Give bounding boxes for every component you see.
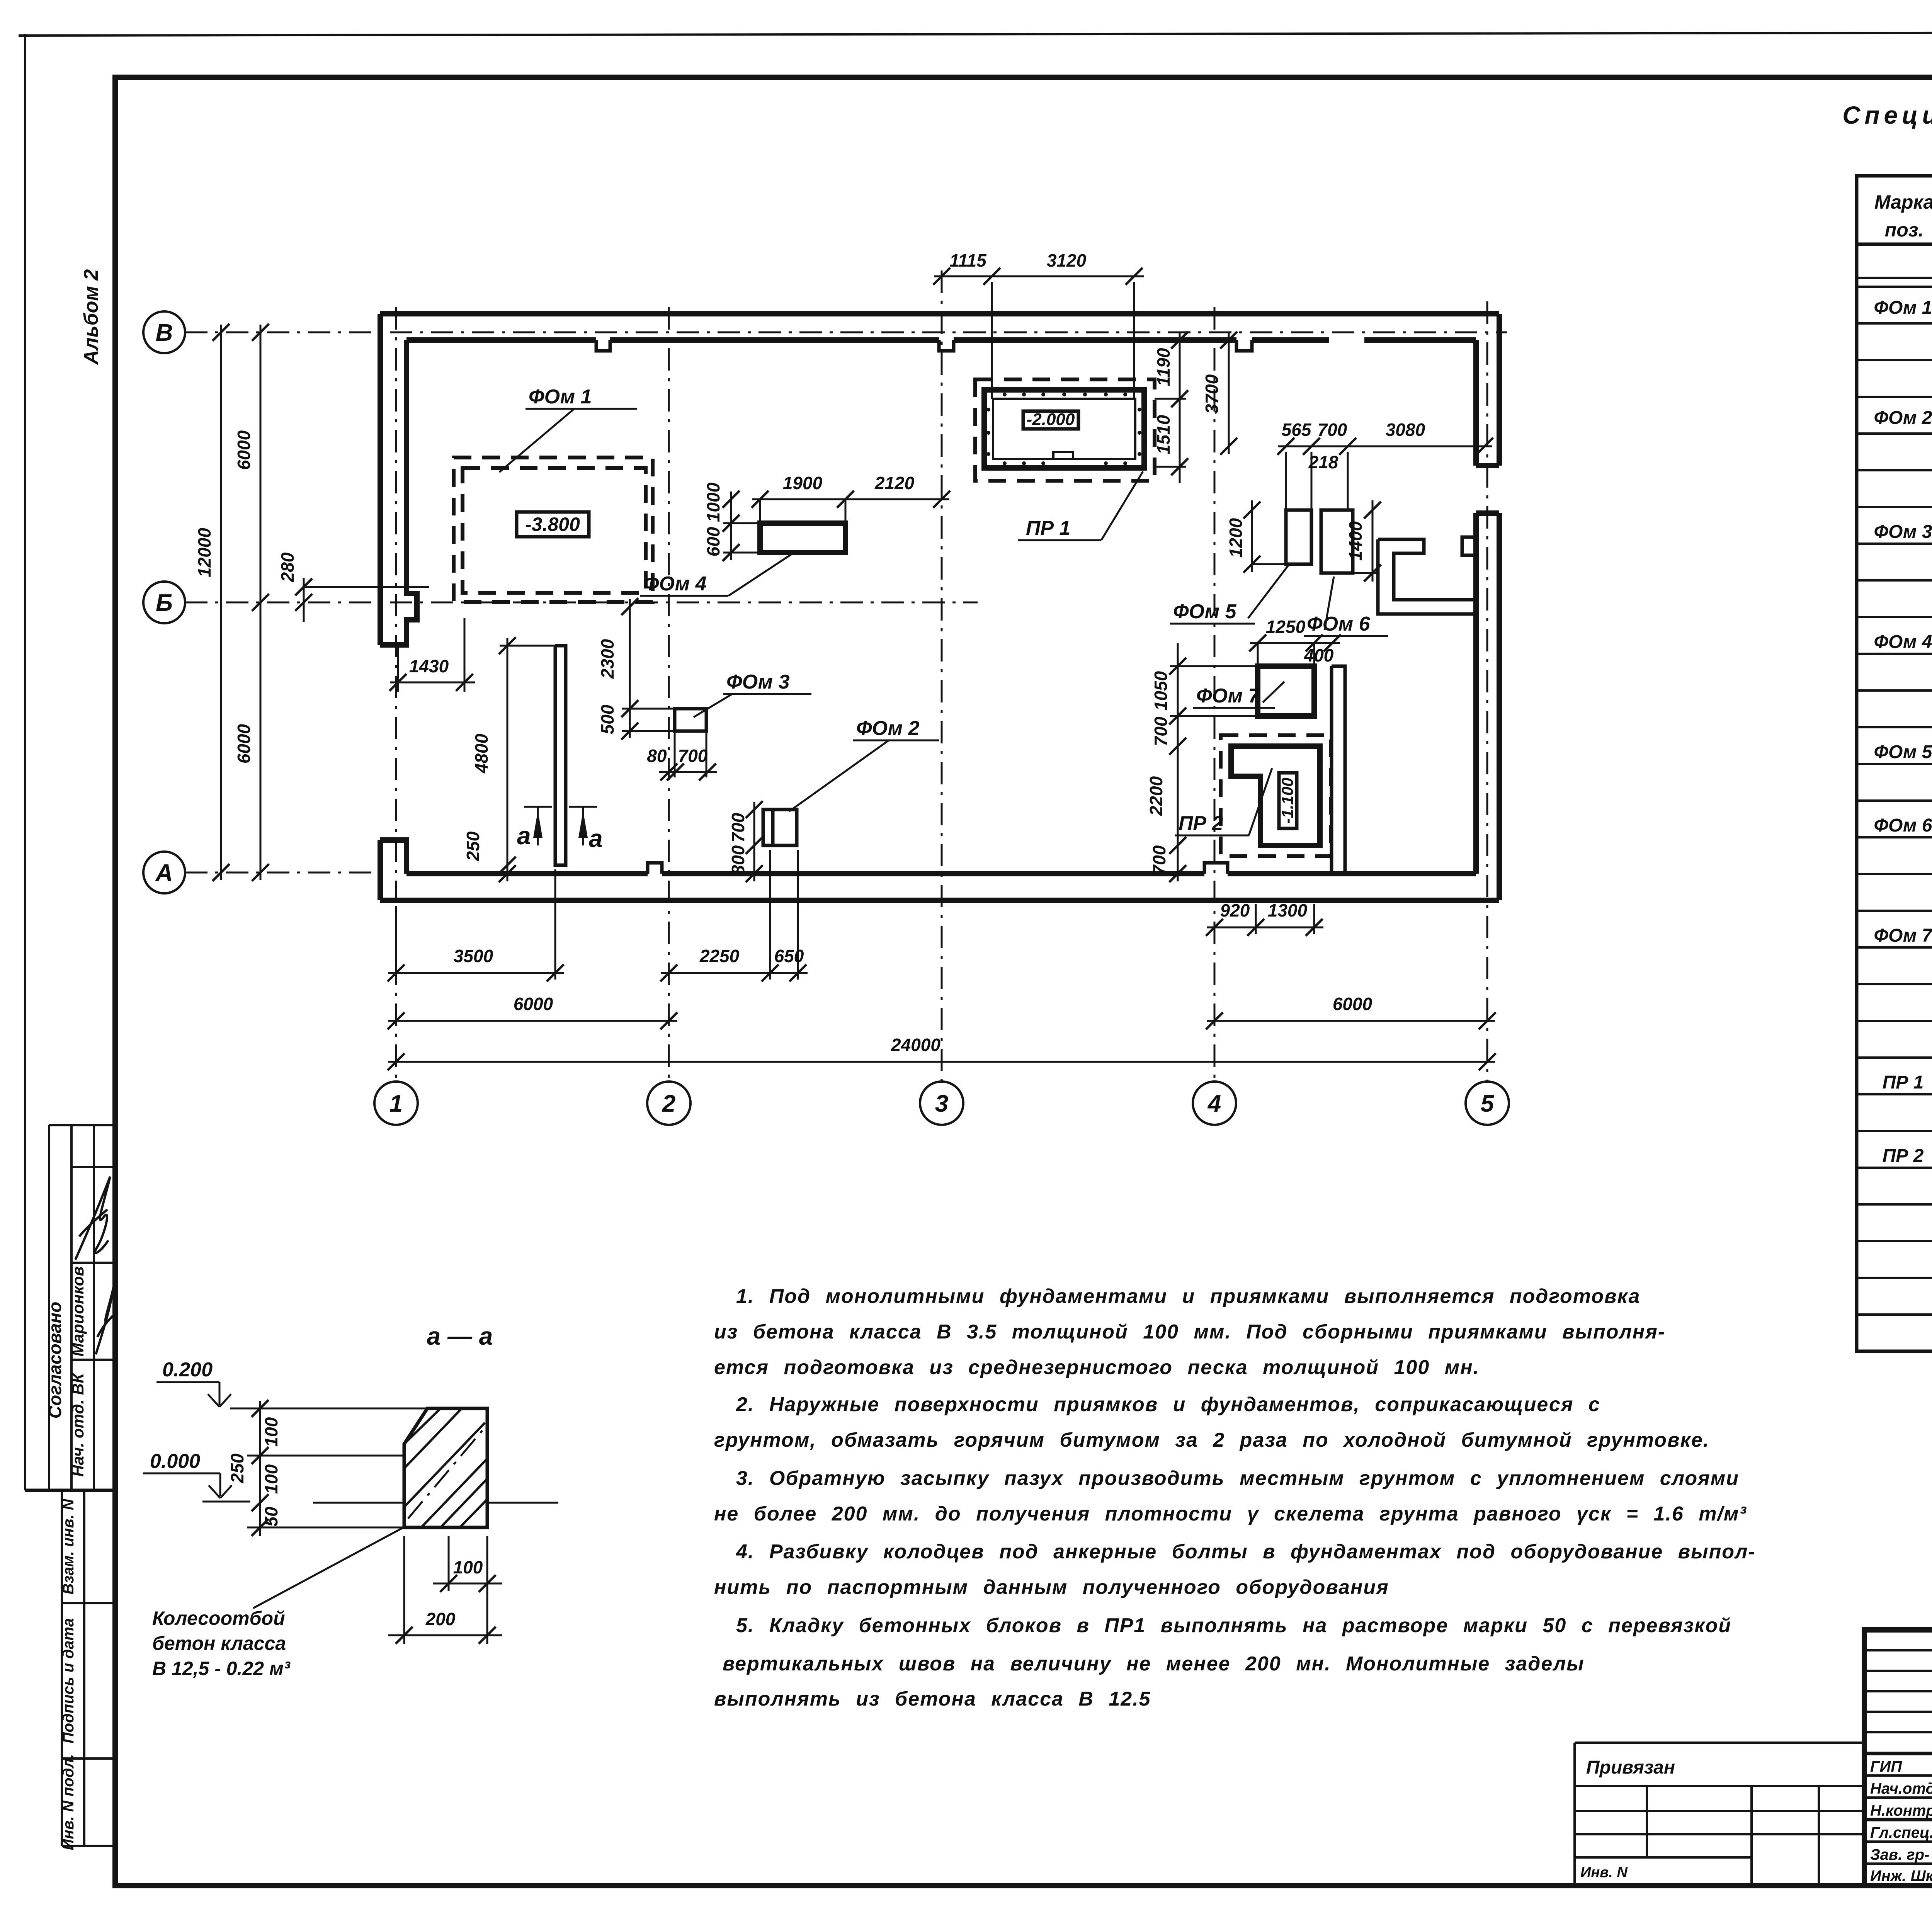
label ПР1 with leader <box>1018 471 1143 540</box>
svg-text:ГИП: ГИП <box>1870 1758 1902 1775</box>
svg-text:4. Разбивку колодцев под ан: 4. Разбивку колодцев под анкерные болты … <box>736 1541 1756 1563</box>
svg-text:3500: 3500 <box>454 946 493 966</box>
svg-text:5: 5 <box>1481 1090 1495 1117</box>
table header bottom line <box>1857 243 1932 246</box>
svg-text:ФОм 2: ФОм 2 <box>1874 408 1932 428</box>
svg-text:2200: 2200 <box>1146 776 1166 816</box>
axis line 2 <box>668 307 670 1082</box>
svg-text:100: 100 <box>453 1557 483 1577</box>
svg-text:250: 250 <box>463 831 483 861</box>
title block horizontals <box>1864 1650 1932 1864</box>
svg-text:ПР 1: ПР 1 <box>1883 1072 1924 1093</box>
svg-text:700: 700 <box>1318 420 1347 440</box>
svg-text:Инв. N: Инв. N <box>1580 1864 1628 1881</box>
dim chain 12000 left <box>194 324 230 881</box>
block bottom dim 200 <box>388 1536 502 1644</box>
svg-text:Инв. N подл.: Инв. N подл. <box>60 1754 77 1850</box>
svg-text:Инж. Шк: Инж. Шк <box>1870 1867 1932 1884</box>
interior partition right of ПР2 <box>1332 666 1345 874</box>
svg-text:2250: 2250 <box>699 946 740 966</box>
foundation ФОм5 <box>1286 510 1311 564</box>
svg-text:2. Наружные поверхности прия: 2. Наружные поверхности приямков и фунда… <box>736 1393 1600 1416</box>
svg-text:выполнять из бетона класса: выполнять из бетона класса В 12.5 <box>714 1688 1151 1710</box>
svg-text:100: 100 <box>261 1464 281 1494</box>
pit ПР1 bottom notch <box>1053 452 1073 459</box>
svg-text:3120: 3120 <box>1047 250 1087 270</box>
dim 700+800 left of ФОм2 <box>728 801 763 882</box>
title block frame <box>1864 1630 1932 1886</box>
block hatching <box>404 1408 487 1527</box>
svg-text:ФОм 4: ФОм 4 <box>643 573 707 595</box>
pit ПР1 inner edge <box>993 399 1135 459</box>
foundation ФОм3 <box>675 709 706 731</box>
axis circle А <box>143 852 185 893</box>
svg-text:Колесоотбой: Колесоотбой <box>152 1607 285 1629</box>
wheel-guard leader note <box>152 1527 405 1679</box>
svg-text:Марионков: Марионков <box>69 1266 87 1357</box>
svg-text:ФОм 3: ФОм 3 <box>726 671 790 693</box>
label ФОм7 with leader <box>1193 682 1284 708</box>
dim chain 1050+700+2200+700 left of ФОм7/ПР2 <box>1146 643 1258 882</box>
svg-text:В: В <box>156 320 173 346</box>
svg-text:Подпись и дата: Подпись и дата <box>60 1618 77 1743</box>
axis circle Б <box>143 582 185 623</box>
svg-text:6000: 6000 <box>1333 994 1372 1014</box>
label ФОм6 with leader <box>1304 577 1388 636</box>
table header texts <box>1874 191 1932 242</box>
svg-text:218: 218 <box>1308 452 1338 472</box>
elevation mark 0.200 <box>156 1359 231 1407</box>
foundation ФОм1 inner dashed outline <box>463 468 646 593</box>
svg-text:3700: 3700 <box>1202 374 1222 414</box>
bottom wall inner line segments <box>406 871 1476 876</box>
top wall inner line segments with pilaster gaps <box>406 337 1476 343</box>
svg-text:24000: 24000 <box>891 1035 940 1055</box>
svg-text:А: А <box>155 860 173 886</box>
dim 1000+600 left of ФОм4 <box>703 482 760 561</box>
svg-text:2: 2 <box>662 1090 675 1117</box>
svg-text:1190: 1190 <box>1153 348 1173 386</box>
svg-text:3080: 3080 <box>1386 420 1425 440</box>
axis circle В <box>143 311 185 353</box>
svg-text:ФОм 4: ФОм 4 <box>1874 632 1932 652</box>
axis line Б <box>185 602 978 604</box>
dim 24000 <box>388 1035 1496 1070</box>
svg-text:700: 700 <box>678 746 708 766</box>
section mark а right <box>569 807 603 852</box>
svg-text:из бетона класса В 3.5 тол: из бетона класса В 3.5 толщиной 100 мм. … <box>714 1321 1665 1343</box>
table body texts <box>1874 298 1932 1240</box>
svg-text:1. Под монолитными фундамент: 1. Под монолитными фундаментами и приямк… <box>736 1285 1640 1308</box>
svg-text:4: 4 <box>1207 1090 1221 1117</box>
svg-text:Спецификация к схеме распол: Спецификация к схеме расположения фундам… <box>1842 101 1932 129</box>
dim 1115+3120 above ПР1 <box>933 250 1144 399</box>
top wall outer line <box>380 311 1499 316</box>
svg-text:поз.: поз. <box>1885 219 1924 241</box>
axis circle 3 <box>920 1082 963 1125</box>
page outer border left <box>24 34 26 1490</box>
svg-text:1900: 1900 <box>783 473 823 493</box>
bottom wall outer line <box>380 898 1499 903</box>
svg-text:a: a <box>517 822 531 850</box>
svg-text:Привязан: Привязан <box>1586 1757 1675 1778</box>
svg-text:700: 700 <box>728 813 748 842</box>
left wall <box>380 314 417 645</box>
pit ПР1 anchor dots <box>986 393 1141 465</box>
dim 280 near Б <box>277 552 429 622</box>
dim 1430 <box>389 618 475 692</box>
dim 1400 right of ФОм6 <box>1345 500 1381 582</box>
svg-text:a: a <box>589 825 603 852</box>
dim 2250+650 <box>660 850 808 981</box>
svg-text:Нач.отд.: Нач.отд. <box>1870 1780 1932 1797</box>
svg-text:ФОм 7: ФОм 7 <box>1196 685 1260 707</box>
svg-text:Альбом 2: Альбом 2 <box>80 269 102 366</box>
svg-text:3. Обратную засыпку пазух п: 3. Обратную засыпку пазух производить ме… <box>736 1467 1739 1490</box>
svg-text:1250: 1250 <box>1266 617 1306 637</box>
svg-text:Зав. гр-: Зав. гр- <box>1870 1846 1929 1863</box>
svg-text:1430: 1430 <box>409 656 449 676</box>
svg-text:-2.000: -2.000 <box>1027 410 1075 429</box>
svg-text:Взам. инв. N: Взам. инв. N <box>60 1498 77 1594</box>
elevation box -3.800 <box>517 512 589 537</box>
label ФОм3 with leader <box>694 671 811 717</box>
svg-text:ФОм 1: ФОм 1 <box>1874 298 1932 318</box>
foundation ФОм7 <box>1258 666 1314 716</box>
svg-text:100: 100 <box>261 1417 281 1447</box>
axis circle 5 <box>1466 1082 1509 1125</box>
svg-text:650: 650 <box>774 946 804 966</box>
svg-text:600: 600 <box>703 527 723 556</box>
svg-text:a — a: a — a <box>427 1322 493 1350</box>
dim 4800+250 partition <box>463 637 560 882</box>
dim 1900+2120 at ФОм4 <box>752 473 950 523</box>
svg-text:ФОм 6: ФОм 6 <box>1307 613 1371 635</box>
axis line 5 <box>1486 301 1488 1082</box>
svg-text:1050: 1050 <box>1151 671 1171 711</box>
svg-text:вертикальных швов на величи: вертикальных швов на величину не менее 2… <box>723 1653 1585 1675</box>
pit ПР2 wall outline <box>1231 746 1320 845</box>
label ПР2 with leader <box>1175 768 1272 835</box>
axis line 4 <box>1214 307 1216 1082</box>
foundation ФОм6 <box>1321 510 1353 573</box>
top wall pilaster 2 <box>939 340 954 351</box>
elevation box -1.100 (rotated) <box>1278 773 1297 828</box>
label ФОм4 with leader <box>640 553 793 596</box>
dim 3500 <box>388 869 564 981</box>
svg-text:3: 3 <box>935 1090 948 1117</box>
wheel-guard partition (section а-а) <box>555 646 566 865</box>
svg-text:Согласовано: Согласовано <box>45 1302 65 1418</box>
left wall lower pier <box>380 840 406 900</box>
svg-text:В 12,5 - 0.22 м³: В 12,5 - 0.22 м³ <box>152 1658 291 1679</box>
svg-text:ФОм 5: ФОм 5 <box>1874 742 1932 762</box>
dim 565+700+3080 above ФОм5/ФОм6 <box>1277 420 1493 510</box>
label ФОм2 with leader <box>789 717 939 811</box>
axis line А <box>185 872 386 874</box>
svg-text:1300: 1300 <box>1268 900 1308 920</box>
svg-text:ПР 1: ПР 1 <box>1026 517 1070 539</box>
svg-text:920: 920 <box>1220 900 1250 920</box>
svg-text:200: 200 <box>425 1609 456 1629</box>
approval signature squiggles <box>75 1177 110 1260</box>
svg-text:500: 500 <box>597 704 617 734</box>
svg-text:ПР 2: ПР 2 <box>1883 1146 1924 1166</box>
block axis dash-dot <box>408 1430 483 1519</box>
svg-text:ФОм 2: ФОм 2 <box>856 717 920 740</box>
svg-text:5. Кладку бетонных блоков в: 5. Кладку бетонных блоков в ПР1 выполнят… <box>736 1614 1731 1637</box>
dim 920+1300 below ПР2 <box>1206 900 1323 936</box>
foundation ФОм1 outer dashed outline <box>454 457 653 602</box>
right wall upper <box>1476 314 1499 466</box>
specification table frame <box>1857 176 1932 1351</box>
svg-text:2300: 2300 <box>597 639 617 679</box>
interior L-wall near ФОм6 <box>1378 539 1476 614</box>
privyazan block <box>1575 1743 1864 1886</box>
svg-text:0.200: 0.200 <box>162 1359 213 1381</box>
svg-text:0.000: 0.000 <box>150 1450 200 1473</box>
svg-text:1: 1 <box>389 1090 403 1117</box>
svg-text:6000: 6000 <box>234 724 254 764</box>
section mark а left <box>517 807 552 850</box>
svg-text:ФОм 7: ФОм 7 <box>1874 925 1932 946</box>
general notes <box>714 1285 1756 1710</box>
staff role labels <box>1870 1758 1932 1884</box>
svg-text:бетон класса: бетон класса <box>152 1633 286 1654</box>
svg-text:80: 80 <box>647 746 667 766</box>
right wall stub <box>1462 537 1476 555</box>
svg-text:1000: 1000 <box>703 482 723 522</box>
table row lines <box>1857 278 1932 1315</box>
svg-text:Н.контр.: Н.контр. <box>1870 1802 1932 1819</box>
svg-text:280: 280 <box>277 552 298 582</box>
top wall pilaster 3 <box>1236 340 1252 351</box>
axis line 1 <box>395 307 397 1082</box>
svg-text:400: 400 <box>1304 645 1334 665</box>
svg-text:50: 50 <box>261 1507 281 1527</box>
svg-text:2120: 2120 <box>874 473 915 493</box>
svg-text:Гл.спец.: Гл.спец. <box>1870 1824 1932 1841</box>
svg-text:700: 700 <box>1151 716 1171 746</box>
svg-text:1115: 1115 <box>949 250 987 270</box>
dim chain 6000+6000 left <box>234 324 269 881</box>
dim 1200 left of ФОм5 <box>1226 500 1286 573</box>
svg-text:6000: 6000 <box>234 430 254 470</box>
block bottom dim 100 <box>433 1536 502 1644</box>
right wall lower <box>1476 513 1499 900</box>
elevation box -2.000 <box>1023 410 1078 429</box>
svg-text:1400: 1400 <box>1345 521 1366 561</box>
label ФОм1 with leader <box>499 386 637 472</box>
svg-text:Марка: Марка <box>1874 191 1932 213</box>
elevation mark 0.000 <box>143 1450 250 1502</box>
dim 80+700 below ФОм3 <box>647 731 717 781</box>
svg-text:1200: 1200 <box>1226 518 1246 558</box>
svg-text:ФОм 5: ФОм 5 <box>1173 600 1237 623</box>
dim 3700 <box>1202 332 1237 455</box>
svg-text:800: 800 <box>728 845 748 875</box>
svg-text:ФОм 6: ФОм 6 <box>1874 815 1932 836</box>
foundation ФОм2 <box>763 810 797 845</box>
svg-text:-1.100: -1.100 <box>1278 777 1296 823</box>
svg-text:ПР 2: ПР 2 <box>1179 812 1223 835</box>
axis line В <box>185 332 1507 333</box>
dim 2300+500 left of ФОм3 <box>597 598 675 740</box>
wheel-guard block section profile <box>404 1408 487 1527</box>
svg-text:6000: 6000 <box>514 994 553 1014</box>
axis line 3 <box>941 270 943 1082</box>
axis circle 4 <box>1193 1082 1236 1125</box>
svg-text:ФОм 3: ФОм 3 <box>1874 522 1932 542</box>
bottom wall pilaster 2 <box>1204 863 1228 874</box>
pit ПР2 outer dashed outline <box>1221 735 1331 856</box>
dim 6000 axes 4-5 <box>1206 994 1496 1029</box>
label ФОм5 with leader <box>1170 565 1289 624</box>
section level lines <box>230 1408 558 1527</box>
axis circle 2 <box>647 1082 690 1125</box>
page outer border top <box>19 32 1932 36</box>
svg-text:грунтом, обмазать горячим б: грунтом, обмазать горячим битумом за 2 р… <box>714 1429 1709 1451</box>
axis circle 1 <box>374 1082 418 1125</box>
svg-text:ется подготовка из среднезе: ется подготовка из среднезернистого песк… <box>714 1356 1480 1379</box>
svg-text:нить по паспортным данным: нить по паспортным данным полученного об… <box>714 1576 1389 1599</box>
pit ПР1 wall outline <box>984 390 1144 468</box>
svg-text:565: 565 <box>1282 420 1312 440</box>
svg-text:Б: Б <box>156 590 173 616</box>
svg-text:250: 250 <box>227 1453 247 1483</box>
foundation ФОм4 <box>760 523 845 553</box>
svg-text:12000: 12000 <box>194 528 214 577</box>
section vertical dim chain 100+100+50 (250) <box>227 1400 281 1536</box>
svg-text:-3.800: -3.800 <box>525 514 580 535</box>
top wall pilaster 1 <box>596 340 610 351</box>
svg-text:1510: 1510 <box>1153 415 1173 454</box>
bottom wall pilaster 1 <box>648 863 662 874</box>
svg-text:ФОм 1: ФОм 1 <box>529 386 592 408</box>
dim 1190+1510 right of ПР1 <box>1153 332 1188 483</box>
svg-text:4800: 4800 <box>471 733 492 774</box>
dim 6000 axes 1-2 <box>388 994 677 1029</box>
svg-text:700: 700 <box>1149 845 1169 875</box>
pit ПР1 outer dashed outline <box>975 379 1155 481</box>
svg-text:Нач. отд. ВК: Нач. отд. ВК <box>69 1372 87 1477</box>
left approval strip grid <box>25 1125 115 1846</box>
svg-text:не более 200 мм. до получен: не более 200 мм. до получения плотности … <box>714 1503 1747 1525</box>
dim 1250+400 above ФОм7 <box>1249 617 1341 666</box>
